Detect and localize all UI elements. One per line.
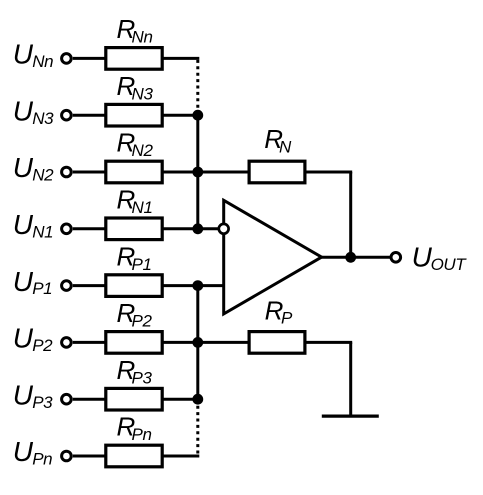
wire R_Nn to bus corner bbox=[162, 57, 200, 60]
svg-text:N1: N1 bbox=[132, 198, 153, 217]
wire U_Pn to R_Pn bbox=[73, 455, 106, 458]
wire U_P2 to R_P2 bbox=[73, 341, 106, 344]
svg-text:Pn: Pn bbox=[132, 425, 152, 444]
dotted bus segment N (continuation) bbox=[196, 60, 199, 111]
svg-text:Nn: Nn bbox=[32, 52, 53, 71]
wire R_N2 through bus to R_N bbox=[162, 171, 250, 174]
input terminal U_N3 bbox=[13, 95, 71, 127]
wire R_N1 to inverting input bbox=[162, 227, 218, 230]
svg-text:U: U bbox=[13, 379, 34, 410]
node: N bus junction at R_N3 bbox=[192, 110, 203, 121]
svg-text:U: U bbox=[13, 209, 34, 240]
op-amp output wire bbox=[322, 256, 392, 259]
svg-text:P2: P2 bbox=[132, 312, 153, 331]
wire U_Nn to R_Nn bbox=[73, 57, 106, 60]
svg-text:U: U bbox=[13, 436, 34, 467]
resistor R_P1 bbox=[106, 241, 162, 296]
wire U_P3 to R_P3 bbox=[73, 398, 106, 401]
input terminal U_P3 bbox=[13, 379, 71, 411]
feedback resistor R_N bbox=[249, 124, 305, 183]
input terminal U_Nn bbox=[13, 39, 71, 71]
resistor R_Pn bbox=[106, 412, 162, 467]
wire R_Pn to dotted bus corner bbox=[162, 455, 200, 458]
node: P bus junction at R_P3 bbox=[192, 394, 203, 405]
svg-text:P: P bbox=[281, 308, 293, 327]
svg-text:Pn: Pn bbox=[32, 450, 52, 469]
resistor R_P (non-inverting to ground) bbox=[249, 295, 305, 353]
wire R_N to feedback corner bbox=[305, 171, 353, 174]
input terminal U_P1 bbox=[13, 266, 71, 298]
svg-text:P3: P3 bbox=[132, 368, 153, 387]
wire R_P3 to bus bbox=[162, 398, 198, 401]
resistor R_Nn bbox=[106, 14, 162, 69]
input terminal U_N2 bbox=[13, 152, 71, 184]
svg-text:P1: P1 bbox=[132, 255, 152, 274]
resistor R_P3 bbox=[106, 355, 162, 410]
N bus wire (inverting summing node) bbox=[196, 115, 199, 229]
P bus wire (non-inverting node) bbox=[196, 286, 199, 400]
svg-text:U: U bbox=[13, 39, 34, 70]
vertical wire to ground bbox=[349, 342, 352, 414]
dotted bus segment P (continuation) bbox=[196, 406, 199, 454]
resistor R_P2 bbox=[106, 298, 162, 353]
resistor R_N1 bbox=[106, 185, 162, 240]
wire U_P1 to R_P1 bbox=[73, 284, 106, 287]
input terminal U_N1 bbox=[13, 209, 71, 241]
svg-text:N3: N3 bbox=[132, 84, 154, 103]
input terminal U_P2 bbox=[13, 323, 71, 355]
svg-text:N1: N1 bbox=[32, 222, 53, 241]
node: P bus junction at R_P1 (non-inverting input) bbox=[192, 280, 203, 291]
svg-text:U: U bbox=[13, 95, 34, 126]
svg-text:P3: P3 bbox=[32, 393, 53, 412]
svg-text:N2: N2 bbox=[32, 166, 54, 185]
svg-text:U: U bbox=[13, 266, 34, 297]
svg-text:U: U bbox=[13, 152, 34, 183]
svg-text:N2: N2 bbox=[132, 141, 154, 160]
ground symbol bbox=[322, 415, 379, 418]
node: N bus junction at R_N1 (inverting input) bbox=[192, 223, 203, 234]
wire R_P1 to non-inverting input bbox=[162, 284, 225, 287]
svg-text:N3: N3 bbox=[32, 109, 54, 128]
op-amp inverting input bubble bbox=[219, 224, 229, 234]
op-amp U1 triangle bbox=[224, 200, 322, 314]
svg-text:U: U bbox=[13, 323, 34, 354]
wire U_N3 to R_N3 bbox=[73, 114, 106, 117]
output terminal U_OUT bbox=[391, 242, 467, 274]
svg-text:P1: P1 bbox=[32, 279, 52, 298]
svg-text:Nn: Nn bbox=[132, 28, 153, 47]
node: N bus junction at R_N2 bbox=[192, 167, 203, 178]
resistor R_N3 bbox=[106, 71, 162, 126]
svg-text:OUT: OUT bbox=[431, 255, 468, 274]
feedback vertical wire to output node bbox=[349, 172, 352, 257]
node: output junction bbox=[345, 252, 356, 263]
wire R_P to ground corner bbox=[305, 341, 353, 344]
svg-text:N: N bbox=[279, 138, 292, 157]
wire R_N3 to bus bbox=[162, 114, 198, 117]
input terminal U_Pn bbox=[13, 436, 71, 468]
wire U_N1 to R_N1 bbox=[73, 227, 106, 230]
svg-text:P2: P2 bbox=[32, 336, 53, 355]
resistor R_N2 bbox=[106, 128, 162, 183]
svg-text:U: U bbox=[412, 242, 433, 273]
node: P bus junction at R_P2 bbox=[192, 337, 203, 348]
wire R_P2 through bus to R_P bbox=[162, 341, 250, 344]
wire U_N2 to R_N2 bbox=[73, 171, 106, 174]
